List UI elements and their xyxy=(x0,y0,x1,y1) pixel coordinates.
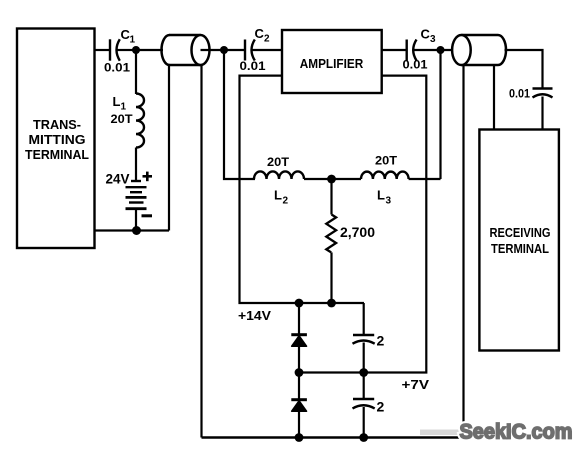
svg-text:24V: 24V xyxy=(106,172,130,187)
capacitor C2 xyxy=(240,26,283,73)
svg-text:20T: 20T xyxy=(375,154,398,168)
wire J4 to L3 xyxy=(332,178,362,180)
wire T2 output right xyxy=(505,50,543,88)
wire J2 down and right to L2 xyxy=(224,50,255,179)
svg-text:2,700: 2,700 xyxy=(340,225,375,240)
node junction J2 xyxy=(220,46,228,54)
wire diode branch top xyxy=(298,303,300,334)
svg-text:+14V: +14V xyxy=(238,308,271,323)
wire J1 down to L1 xyxy=(135,50,137,94)
inductor L1 xyxy=(111,94,145,148)
node junction J4 xyxy=(327,175,336,184)
capacitor C1 xyxy=(104,27,136,75)
amplifier U1 box xyxy=(282,30,382,93)
node junction diode mid xyxy=(295,368,304,377)
svg-text:2: 2 xyxy=(283,196,289,207)
node junction bottom capacitor xyxy=(359,433,368,442)
svg-text:MITTING: MITTING xyxy=(29,132,86,147)
svg-text:AMPLIFIER: AMPLIFIER xyxy=(300,56,364,71)
wire L2 to J4 xyxy=(304,178,332,180)
node junction bottom diode xyxy=(295,433,304,442)
cable repeater cylinder T1 xyxy=(162,35,210,65)
capacitor C5 value 2 xyxy=(353,373,385,438)
wire J3 down to L3 xyxy=(439,50,441,179)
svg-text:TRANS-: TRANS- xyxy=(33,117,81,132)
wire cap to receiving terminal xyxy=(541,97,543,130)
svg-text:20T: 20T xyxy=(111,112,134,126)
wire T1 right leg down to bottom rail xyxy=(200,65,202,438)
svg-text:0.01: 0.01 xyxy=(403,58,428,72)
wire C4 to mid rail xyxy=(363,343,365,373)
wire transmitting terminal bottom rail xyxy=(94,229,169,231)
capacitor 0.01 right xyxy=(509,87,553,101)
svg-text:RECEIVING: RECEIVING xyxy=(490,225,551,240)
transmitting terminal box xyxy=(17,29,95,249)
svg-text:0.01: 0.01 xyxy=(240,59,266,73)
node junction diode top xyxy=(295,299,304,308)
wire D1 to mid junction xyxy=(298,346,300,373)
wire T2 bottom left down to bottom rail xyxy=(462,64,464,438)
wire L3 to C3 drop line xyxy=(409,178,441,180)
wire mid +7V rail xyxy=(299,76,426,373)
svg-text:C: C xyxy=(255,26,265,41)
diode D2 xyxy=(291,373,307,438)
inductor L3 xyxy=(361,154,409,207)
watermark smudge xyxy=(420,430,459,436)
svg-text:3: 3 xyxy=(430,34,436,45)
wire L1 to battery xyxy=(135,148,137,182)
svg-text:SeekIC.com: SeekIC.com xyxy=(460,420,573,444)
svg-text:TERMINAL: TERMINAL xyxy=(25,147,89,162)
svg-text:3: 3 xyxy=(386,196,392,207)
wire amplifier lower-left to +14V rail xyxy=(240,76,365,303)
wire J1 to repeater T1 xyxy=(136,49,163,51)
svg-text:L: L xyxy=(274,188,282,203)
svg-text:1: 1 xyxy=(130,35,136,46)
svg-text:0.01: 0.01 xyxy=(104,61,130,75)
node junction capacitor mid xyxy=(359,368,368,377)
wire J3 to repeater T2 xyxy=(441,49,462,51)
node junction J1 at C1 output xyxy=(132,46,140,54)
svg-text:TERMINAL: TERMINAL xyxy=(491,241,549,256)
svg-text:L: L xyxy=(113,94,121,109)
wire T2 bottom right to receiving terminal xyxy=(493,65,495,130)
resistor R1 2700 xyxy=(326,179,375,303)
capacitor C4 value 2 xyxy=(353,333,385,349)
svg-text:2: 2 xyxy=(377,399,385,415)
wire battery to bottom node xyxy=(135,209,137,231)
svg-text:C: C xyxy=(421,27,431,42)
wire +14V rail down to capacitor C4 xyxy=(363,303,365,335)
svg-text:20T: 20T xyxy=(267,155,290,169)
svg-text:+7V: +7V xyxy=(402,377,430,392)
svg-text:2: 2 xyxy=(377,333,385,349)
capacitor C3 xyxy=(403,27,438,72)
wire amplifier output to C3 xyxy=(382,49,406,51)
wire bottom rail xyxy=(202,436,464,438)
wire T1 left leg down xyxy=(168,65,170,231)
node battery bottom junction xyxy=(132,226,141,235)
inductor L2 xyxy=(254,155,304,207)
svg-text:0.01: 0.01 xyxy=(509,87,530,101)
wire J2 to C2 xyxy=(224,49,244,51)
wire T1 output to J2 xyxy=(201,49,225,51)
node junction J3 xyxy=(437,46,445,54)
diode D1 xyxy=(291,335,307,347)
node junction resistor bottom xyxy=(327,299,336,308)
receiving terminal box xyxy=(479,130,559,351)
battery 24V xyxy=(106,172,153,218)
svg-text:2: 2 xyxy=(264,34,270,45)
wire from transmitting terminal to C1 xyxy=(94,49,110,51)
cable repeater cylinder T2 xyxy=(452,35,506,65)
svg-text:1: 1 xyxy=(121,102,127,113)
svg-text:L: L xyxy=(377,188,385,203)
